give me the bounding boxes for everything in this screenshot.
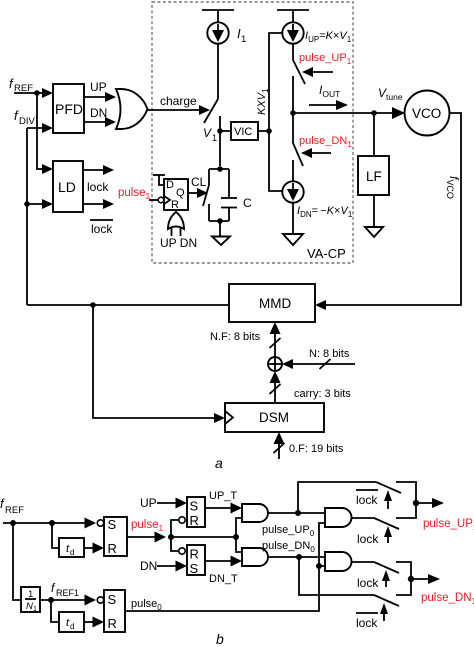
switch pulse_UP1 blade xyxy=(293,60,305,84)
svg-text:R: R xyxy=(108,616,117,631)
wire LD lock output xyxy=(83,169,104,171)
arrow into AND1L xyxy=(231,556,243,567)
svg-text:1: 1 xyxy=(241,34,246,45)
wire td2 to latch0 R xyxy=(84,621,94,623)
svg-text:UP: UP xyxy=(140,496,157,510)
wire td1 to latch1 R xyxy=(84,547,94,549)
arrow into MMD xyxy=(315,300,326,310)
arrow CL at switch xyxy=(197,188,208,198)
svg-text:lock: lock xyxy=(357,532,379,546)
wire IDN to ground xyxy=(292,203,294,234)
latch0 SR xyxy=(104,590,125,632)
wire DN to latchDN xyxy=(157,565,177,567)
wire switch branch bottom xyxy=(208,204,210,221)
slash carry xyxy=(270,384,281,394)
wire pulse1 to latchDN R xyxy=(171,537,179,551)
LF block xyxy=(358,156,389,195)
DFF U2 xyxy=(164,179,188,210)
wire PFD UP to OR gate xyxy=(84,96,106,98)
switch lockbar UP blade xyxy=(376,482,401,493)
svg-text:pulse_DN0: pulse_DN0 xyxy=(262,540,315,554)
arrow pulse1 xyxy=(155,532,167,543)
svg-text:Q: Q xyxy=(176,187,185,199)
svg-text:R: R xyxy=(171,199,179,211)
bubble latchUP R xyxy=(179,517,185,523)
supply bar IUP xyxy=(277,9,309,11)
wire KXV1 down to IDN xyxy=(269,131,283,191)
latchDN SR xyxy=(187,545,205,575)
svg-text:fVCO: fVCO xyxy=(445,176,461,199)
wire tap to DSM xyxy=(93,305,215,418)
arrow into latchUP S xyxy=(176,498,188,509)
svg-text:carry: 3 bits: carry: 3 bits xyxy=(294,388,351,400)
svg-text:S: S xyxy=(108,517,117,532)
svg-text:KXV1: KXV1 xyxy=(256,88,270,115)
wire VIC to KXV node xyxy=(258,130,269,132)
junction pulse0 AND2L tap xyxy=(316,563,322,569)
slash N xyxy=(320,359,331,369)
DFF tie-high bar xyxy=(153,174,165,176)
wire LD lockbar output xyxy=(83,203,104,205)
bubble latch0 S xyxy=(97,597,103,603)
wire supply to I1 xyxy=(217,10,219,23)
wire pulse_DN0 to AND2L xyxy=(299,556,325,558)
arrow lock DN control xyxy=(385,580,387,587)
svg-text:VCO: VCO xyxy=(412,106,441,121)
VA-CP dashed boundary xyxy=(152,2,353,263)
OR gate U1 charge xyxy=(116,89,148,129)
arrow into OR gate UP xyxy=(105,92,116,102)
delay td1 xyxy=(59,538,84,557)
arrow lock output xyxy=(103,165,114,175)
arrow pulse_UP1 control xyxy=(313,71,333,73)
wire pulse1 to latchUP R xyxy=(171,520,179,537)
svg-text:pulse0: pulse0 xyxy=(131,598,162,612)
capacitor C xyxy=(228,169,230,198)
ground C xyxy=(212,237,230,246)
arrow into LD input 2 xyxy=(42,199,53,209)
svg-text:D: D xyxy=(166,179,174,191)
svg-text:lock: lock xyxy=(357,576,379,590)
latch1 SR xyxy=(104,517,127,556)
wire Vtune to LF xyxy=(373,113,375,156)
AND gate 2L xyxy=(325,552,352,571)
svg-text:N.F: 8 bits: N.F: 8 bits xyxy=(210,331,261,343)
wire PFD DN to OR gate xyxy=(84,121,106,123)
delay td2 xyxy=(59,612,84,632)
svg-text:charge: charge xyxy=(160,94,197,108)
svg-text:IUP=K×V1: IUP=K×V1 xyxy=(305,30,352,44)
junction KXV1 xyxy=(266,128,272,134)
arrow into PFD UP input xyxy=(42,88,53,98)
junction out node xyxy=(290,110,296,116)
svg-text:DSM: DSM xyxy=(259,410,289,425)
wire OR input DN xyxy=(180,227,182,236)
svg-text:DN: DN xyxy=(90,106,107,120)
wire pulse1 across xyxy=(171,536,236,538)
svg-text:pulse_DN1: pulse_DN1 xyxy=(421,592,474,606)
arrow into OR gate DN xyxy=(105,117,116,127)
svg-text:N: N xyxy=(26,601,33,612)
svg-text:lock: lock xyxy=(87,180,109,194)
wire AND2U out xyxy=(352,517,375,519)
wire I1 to charge switch xyxy=(217,44,219,99)
latchUP SR xyxy=(187,497,205,527)
arrow lockbar UP control xyxy=(387,500,389,509)
wire pulse1 to DFF clock xyxy=(149,199,158,201)
summer node xyxy=(268,357,282,371)
AND gate 2U xyxy=(325,508,352,527)
slash 0F xyxy=(274,443,285,453)
bubble latchDN R xyxy=(179,548,185,554)
wire fDIV to PFD xyxy=(27,127,44,129)
svg-text:PFD: PFD xyxy=(55,101,83,117)
svg-text:1: 1 xyxy=(33,606,37,613)
DFF clock chevron xyxy=(164,196,170,204)
wire to ground C xyxy=(219,221,221,237)
wire out node to DN switch xyxy=(292,113,294,143)
svg-text:pulse_UP1: pulse_UP1 xyxy=(423,518,474,532)
arrow into LD input 1 xyxy=(42,164,53,174)
wire 0F into DSM xyxy=(278,438,280,459)
junction pulse_DN1 xyxy=(408,576,414,582)
wire switch branch top xyxy=(208,169,210,185)
svg-text:S: S xyxy=(190,499,199,514)
arrow pulse_DN1 out xyxy=(411,578,428,580)
wire MMD to fDIV rail xyxy=(27,304,229,306)
svg-text:pulse_UP1: pulse_UP1 xyxy=(299,52,352,66)
wire DFF Q to CL switch xyxy=(188,192,198,194)
svg-text:d: d xyxy=(70,548,74,557)
switch S-charge blade xyxy=(204,99,218,123)
svg-text:Vtune: Vtune xyxy=(378,86,403,102)
arrow into latch0 R xyxy=(93,617,105,628)
junction V1 xyxy=(217,128,223,134)
wire sum to MMD xyxy=(274,328,276,357)
svg-text:REF: REF xyxy=(5,505,24,516)
wire AND1L out xyxy=(268,556,299,558)
wire AND2L out xyxy=(352,561,375,563)
wire OR input UP xyxy=(171,227,173,236)
PFD block xyxy=(53,84,84,133)
svg-text:CL: CL xyxy=(191,175,207,189)
wire DN bypass right xyxy=(396,579,411,595)
wire out node to VCO xyxy=(293,112,393,114)
wire IUP to switch xyxy=(292,44,294,60)
VIC block xyxy=(231,122,258,140)
wire fREF b xyxy=(3,522,92,524)
wire UP bypass xyxy=(298,482,376,513)
wire pulse0 to AND2L xyxy=(319,565,325,567)
arrow lockbar output xyxy=(103,199,114,209)
svg-text:VIC: VIC xyxy=(234,126,252,138)
current source IDN xyxy=(282,181,303,202)
wire latchUP out xyxy=(205,507,231,509)
arrow into PFD DN input xyxy=(42,123,53,133)
junction pulse1 AND tap xyxy=(233,534,239,540)
svg-text:1: 1 xyxy=(212,133,217,143)
svg-text:VA-CP: VA-CP xyxy=(307,246,346,261)
wire AND1U out xyxy=(268,512,298,514)
svg-text:lock: lock xyxy=(356,493,378,507)
wire td1 input xyxy=(52,523,59,548)
svg-text:pulse_DN1: pulse_DN1 xyxy=(299,135,352,149)
arrow IOUT xyxy=(309,104,337,106)
wire V1 split top xyxy=(209,168,229,170)
arrow into latch1 S xyxy=(85,518,97,529)
junction fREF node xyxy=(34,90,40,96)
wire pulse1 to AND1L xyxy=(236,537,242,552)
arrow lockbar DN control xyxy=(383,613,385,621)
wire UP bypass right xyxy=(396,482,416,503)
svg-text:DIV: DIV xyxy=(19,116,36,127)
supply bar I1 xyxy=(202,9,234,11)
bubble latch1 S xyxy=(97,520,103,526)
junction pulse_DN0 xyxy=(296,554,302,560)
arrow into DSM xyxy=(214,413,225,423)
switch CL blade xyxy=(203,185,209,206)
junction pulse_UP0 xyxy=(295,510,301,516)
label lockbar DN xyxy=(356,612,378,614)
arrow into latch1 R xyxy=(93,543,105,554)
svg-text:IOUT: IOUT xyxy=(319,83,340,99)
wire switch to V1 xyxy=(219,116,221,166)
junction pulse1 xyxy=(168,534,174,540)
svg-text:lock: lock xyxy=(356,616,378,630)
LD block xyxy=(53,161,83,212)
wire pulse1 to AND1U xyxy=(236,518,242,537)
svg-text:R: R xyxy=(190,513,199,528)
bubble DFF clock xyxy=(158,197,164,203)
switch lock UP blade xyxy=(374,518,399,529)
junction cap top xyxy=(217,166,223,172)
wire KXV1 up to IUP xyxy=(269,33,282,131)
svg-text:R: R xyxy=(190,547,199,562)
wire V1 to VIC xyxy=(220,130,231,132)
wire fDIV rail down xyxy=(26,128,28,305)
wire fDIV to LD xyxy=(27,203,44,205)
svg-text:LD: LD xyxy=(58,179,76,195)
svg-text:S: S xyxy=(190,561,199,576)
switch lock DN blade xyxy=(374,562,399,573)
wire OR to R xyxy=(175,210,177,213)
AND gate 1U xyxy=(242,504,268,522)
DSM clock chevron xyxy=(225,411,233,424)
svg-text:d: d xyxy=(70,622,74,631)
OR gate UP DN reset xyxy=(168,212,184,229)
svg-text:REF1: REF1 xyxy=(56,588,79,598)
wire lock UP right xyxy=(396,503,416,518)
ground LF xyxy=(365,227,383,237)
svg-text:a: a xyxy=(215,455,223,471)
wire latchDN out xyxy=(205,560,231,562)
VCO block xyxy=(405,91,450,136)
wire DN bypass xyxy=(299,557,374,595)
svg-text:UP_T: UP_T xyxy=(209,490,237,502)
junction cap bottom xyxy=(217,218,223,224)
svg-text:1: 1 xyxy=(28,589,33,600)
DSM block xyxy=(225,403,324,432)
svg-text:C: C xyxy=(243,196,252,210)
wire pulse0 across xyxy=(125,523,325,611)
wire N into summer xyxy=(293,363,355,365)
wire pulse_UP0 to AND2U xyxy=(298,512,325,514)
junction fDIV at LD xyxy=(24,201,30,207)
arrow into VCO xyxy=(392,107,405,119)
wire switch to out node xyxy=(292,76,294,113)
svg-text:UP DN: UP DN xyxy=(160,236,197,250)
svg-text:b: b xyxy=(216,631,224,647)
wire divider to latch0 xyxy=(40,599,92,601)
slash NF xyxy=(270,338,281,348)
arrow into latch0 S xyxy=(85,595,97,606)
svg-text:N: 8 bits: N: 8 bits xyxy=(309,348,350,360)
svg-text:pulse1: pulse1 xyxy=(131,519,164,533)
arrow lock UP control xyxy=(387,536,389,543)
wire VCO to MMD xyxy=(324,113,461,305)
junction pulse_UP1 xyxy=(413,500,419,506)
switch pulse_DN1 blade xyxy=(293,143,303,166)
wire latch1 out xyxy=(127,536,156,538)
svg-text:DN: DN xyxy=(140,559,157,573)
switch lockbar DN blade xyxy=(374,595,399,606)
svg-text:pulse1: pulse1 xyxy=(118,187,151,201)
wire lock DN right xyxy=(396,562,411,579)
AND gate 1L xyxy=(242,548,268,566)
junction DSM clock tap xyxy=(90,302,96,308)
junction Vtune xyxy=(371,110,377,116)
arrow charge at switch xyxy=(199,105,210,115)
arrow pulse_DN1 control xyxy=(312,152,331,154)
MMD block xyxy=(229,284,315,322)
svg-text:MMD: MMD xyxy=(259,296,291,311)
svg-text:IDN= −K×V1: IDN= −K×V1 xyxy=(297,205,353,219)
svg-text:R: R xyxy=(108,541,117,556)
current source IUP xyxy=(282,22,303,43)
wire fREF rail to divider xyxy=(13,523,21,600)
label lockbar UP xyxy=(356,489,378,491)
wire cap bottom join xyxy=(209,220,229,222)
wire UP to latchUP xyxy=(157,502,177,504)
junction fREF1 xyxy=(48,597,54,603)
svg-text:0.F: 19 bits: 0.F: 19 bits xyxy=(289,443,344,455)
wire fREF to PFD xyxy=(14,92,44,94)
svg-text:DN_T: DN_T xyxy=(209,573,238,585)
arrow into latchDN S xyxy=(176,561,188,572)
wire fREF down to LD xyxy=(37,93,44,169)
junction fREF rail b xyxy=(10,520,16,526)
wire DSM to summer xyxy=(274,377,276,403)
junction fREF td tap xyxy=(49,520,55,526)
divider 1/N1 xyxy=(21,587,40,612)
svg-text:S: S xyxy=(108,592,117,607)
wire LF to ground xyxy=(373,195,375,227)
svg-text:lock: lock xyxy=(91,222,113,236)
wire supply to IUP xyxy=(292,10,294,23)
arrow into AND1U xyxy=(231,503,243,514)
arrow pulse_UP1 out xyxy=(416,502,433,504)
svg-text:UP: UP xyxy=(90,80,107,94)
current source I1 xyxy=(207,22,228,43)
svg-text:LF: LF xyxy=(366,169,382,184)
ground IDN xyxy=(283,234,303,245)
wire switch to IDN xyxy=(292,160,294,181)
wire charge OR to switch xyxy=(147,109,200,111)
svg-text:V: V xyxy=(203,126,212,140)
svg-text:pulse_UP0: pulse_UP0 xyxy=(262,524,315,538)
wire td2 input xyxy=(51,600,59,622)
